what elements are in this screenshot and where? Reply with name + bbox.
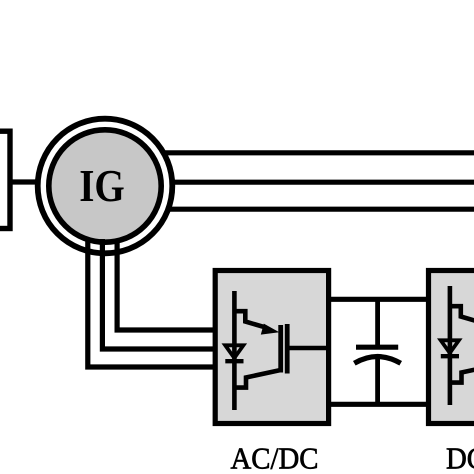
svg-text:IG: IG bbox=[79, 160, 125, 211]
IGBT Q1 body bar bbox=[285, 324, 290, 374]
capacitor C1 curved plate bbox=[354, 357, 400, 364]
IGBT Q2 emitter path (cut off) bbox=[450, 365, 474, 383]
IGBT Q1 emitter path bbox=[234, 370, 280, 388]
svg-text:AC/DC: AC/DC bbox=[231, 440, 319, 474]
IGBT Q1 emitter arrow bbox=[261, 324, 280, 335]
wire stator phase 1 (left, to AC/DC) bbox=[88, 239, 218, 367]
capacitor C1 top lead bbox=[375, 300, 380, 345]
IGBT Q1 gate bar bbox=[278, 325, 283, 373]
diode D1 triangle bbox=[225, 345, 243, 358]
wire DC bus negative rail bbox=[329, 402, 429, 407]
svg-text:DC/AC: DC/AC bbox=[446, 440, 474, 474]
wire stator phase 2 (middle, to AC/DC) bbox=[102, 239, 218, 349]
diode D2 cathode bar bbox=[441, 354, 459, 358]
generator IG outer ring bbox=[38, 119, 173, 254]
wire phase A to grid (top) bbox=[150, 150, 474, 155]
diode branch wire U1 bbox=[232, 291, 237, 410]
generator IG inner disk bbox=[49, 130, 161, 242]
capacitor C1 bottom lead bbox=[375, 359, 380, 406]
diode D1 cathode bar bbox=[225, 359, 243, 363]
wire phase C to grid (bottom) bbox=[150, 207, 474, 212]
IGBT Q1 collector path bbox=[234, 311, 266, 327]
capacitor C1 flat plate bbox=[356, 345, 398, 350]
wire phase B to grid (middle) bbox=[150, 180, 474, 185]
IGBT Q1 gate lead bbox=[289, 346, 327, 351]
wire stator phase 3 (right, to AC/DC) bbox=[117, 239, 218, 330]
wire DC bus positive rail bbox=[329, 297, 429, 302]
wire shaft gearbox-to-IG bbox=[8, 179, 45, 184]
IGBT Q2 collector path (cut off) bbox=[450, 306, 474, 324]
diode D2 triangle bbox=[441, 340, 459, 353]
gearbox block (cut off at left edge) bbox=[0, 131, 10, 228]
DC/AC converter block (cut off at right edge) bbox=[429, 271, 474, 424]
diode branch wire U2 bbox=[448, 286, 453, 405]
AC/DC converter block bbox=[215, 271, 328, 424]
